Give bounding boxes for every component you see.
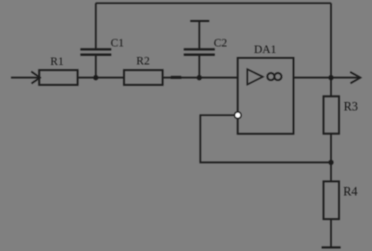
wire R3 to R4 xyxy=(330,134,332,182)
capacitor C1 xyxy=(80,49,111,54)
wire output line xyxy=(294,77,360,79)
output arrowhead xyxy=(350,72,360,83)
svg-text:C2: C2 xyxy=(214,38,228,50)
svg-text:R2: R2 xyxy=(136,56,150,68)
ground bar bottom xyxy=(322,246,341,248)
wire C1 lower stub xyxy=(95,55,97,78)
svg-text:R3: R3 xyxy=(344,99,358,113)
node output junction dot xyxy=(328,75,333,80)
wire R1 to R2 xyxy=(78,77,124,79)
wire C2 lower stub xyxy=(198,55,200,78)
wire thick dash segment xyxy=(171,76,182,79)
wire C2 upper stub xyxy=(198,21,200,49)
wire R2 to op-amp input xyxy=(163,77,238,79)
resistor R1 xyxy=(39,70,77,85)
wire C1 upper stub xyxy=(95,3,97,49)
op-amp U1 DA1 body xyxy=(238,58,294,134)
op-amp triangle symbol xyxy=(247,69,262,84)
resistor R3 xyxy=(324,96,340,133)
wire top rail xyxy=(96,2,331,4)
resistor R2 xyxy=(124,70,163,85)
resistor R4 xyxy=(324,181,340,219)
wire right vertical from top rail to output node xyxy=(330,3,332,96)
node A junction dot xyxy=(93,75,98,80)
wire feedback from inverting input xyxy=(200,115,331,162)
node feedback junction dot xyxy=(328,160,333,165)
node B junction dot xyxy=(197,75,202,80)
ground bar above C2 xyxy=(190,20,209,22)
op-amp infinity gain symbol xyxy=(267,73,281,80)
svg-text:DA1: DA1 xyxy=(254,44,277,56)
capacitor C2 xyxy=(184,49,215,54)
wire input line xyxy=(11,77,40,79)
svg-text:C1: C1 xyxy=(111,37,125,49)
op-amp inverting input circle xyxy=(235,112,241,118)
input arrowhead xyxy=(31,72,40,84)
svg-text:R1: R1 xyxy=(50,56,64,68)
wire R4 to ground xyxy=(330,219,332,247)
svg-text:R4: R4 xyxy=(343,184,357,198)
